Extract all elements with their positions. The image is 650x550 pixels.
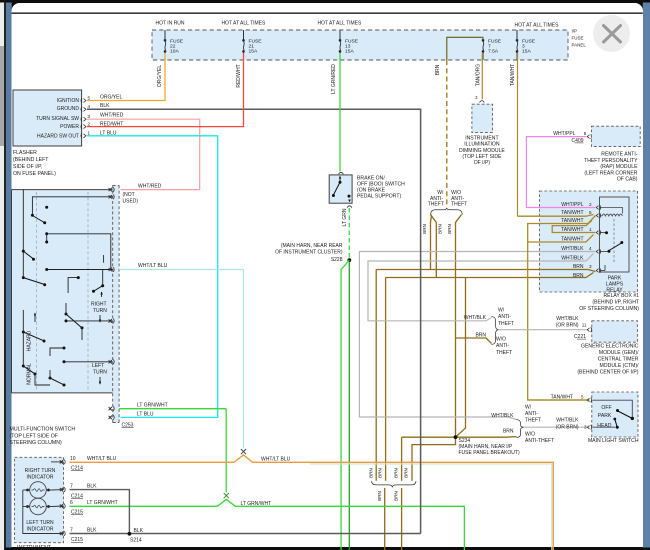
svg-text:BRN: BRN xyxy=(377,491,382,501)
svg-text:I/P: I/P xyxy=(572,29,578,34)
svg-text:WHT/BLK: WHT/BLK xyxy=(556,316,579,322)
svg-text:4: 4 xyxy=(88,104,91,109)
svg-text:SIDE OF I/P,: SIDE OF I/P, xyxy=(13,164,42,170)
svg-text:TURN SIGNAL SW: TURN SIGNAL SW xyxy=(36,116,79,122)
svg-text:WHT/BLK: WHT/BLK xyxy=(464,315,487,321)
svg-text:WHT/LT BLU: WHT/LT BLU xyxy=(261,456,291,462)
svg-text:BRN: BRN xyxy=(435,64,441,75)
svg-text:BRN: BRN xyxy=(404,468,409,478)
svg-text:WHT/RED: WHT/RED xyxy=(100,113,124,119)
svg-text:FUSE: FUSE xyxy=(522,38,536,44)
svg-text:BRN: BRN xyxy=(475,333,486,339)
svg-text:THEFT: THEFT xyxy=(496,350,512,356)
svg-text:BRN: BRN xyxy=(447,224,452,234)
svg-text:4: 4 xyxy=(589,246,592,251)
svg-text:15A: 15A xyxy=(249,49,258,55)
svg-text:HEAD: HEAD xyxy=(597,423,611,429)
svg-text:1: 1 xyxy=(88,131,91,136)
svg-text:11: 11 xyxy=(582,323,587,328)
svg-text:IGNITION: IGNITION xyxy=(57,98,80,104)
svg-text:22: 22 xyxy=(170,44,176,50)
svg-text:TAN/WHT: TAN/WHT xyxy=(561,210,583,216)
svg-text:BLK: BLK xyxy=(87,528,97,534)
svg-text:ORG/YEL: ORG/YEL xyxy=(100,95,122,101)
svg-text:WHT/BLK: WHT/BLK xyxy=(556,418,579,424)
svg-text:7: 7 xyxy=(488,44,491,50)
svg-text:(LEFT REAR CORNER: (LEFT REAR CORNER xyxy=(584,170,637,176)
svg-text:7: 7 xyxy=(70,528,73,534)
svg-text:GENERIC ELECTRONIC: GENERIC ELECTRONIC xyxy=(581,344,639,350)
svg-text:5: 5 xyxy=(88,95,91,100)
svg-text:INDICATOR: INDICATOR xyxy=(26,526,53,532)
svg-text:LEFT TURN: LEFT TURN xyxy=(26,520,54,526)
svg-text:TAN/WHT: TAN/WHT xyxy=(561,237,583,243)
svg-text:MODULE (CTM)/: MODULE (CTM)/ xyxy=(599,363,639,369)
svg-text:HOT AT ALL TIMES: HOT AT ALL TIMES xyxy=(221,21,266,27)
svg-text:HOT AT ALL TIMES: HOT AT ALL TIMES xyxy=(317,21,362,27)
svg-text:STEERING COLUMN): STEERING COLUMN) xyxy=(10,440,62,446)
svg-text:W/O: W/O xyxy=(525,432,535,438)
svg-text:POWER: POWER xyxy=(60,124,79,130)
svg-text:TAN/WHT: TAN/WHT xyxy=(561,227,583,233)
svg-text:MAIN LIGHT SWITCH: MAIN LIGHT SWITCH xyxy=(588,438,639,444)
svg-text:(OR BRN): (OR BRN) xyxy=(556,323,579,329)
svg-text:THEFT: THEFT xyxy=(451,202,467,208)
svg-text:15A: 15A xyxy=(522,49,531,55)
svg-text:BRN: BRN xyxy=(368,468,373,478)
svg-text:PEDAL SUPPORT): PEDAL SUPPORT) xyxy=(357,194,401,200)
svg-text:8: 8 xyxy=(584,131,587,136)
svg-text:LEFT: LEFT xyxy=(92,363,104,369)
svg-text:LT GRN: LT GRN xyxy=(342,208,348,226)
svg-text:BRN: BRN xyxy=(573,264,584,270)
svg-text:5: 5 xyxy=(589,210,592,215)
svg-text:BLK: BLK xyxy=(134,528,144,534)
svg-text:TAN/ORG: TAN/ORG xyxy=(475,64,481,87)
svg-text:WHT/BLK: WHT/BLK xyxy=(561,256,584,262)
svg-text:MODULE (GEM)/: MODULE (GEM)/ xyxy=(599,350,639,356)
svg-text:THEFT PERSONALITY: THEFT PERSONALITY xyxy=(584,158,638,164)
svg-text:THEFT: THEFT xyxy=(498,321,514,327)
svg-text:TURN: TURN xyxy=(93,308,107,314)
svg-text:BRN: BRN xyxy=(573,273,584,279)
svg-text:WHT/LT BLU: WHT/LT BLU xyxy=(87,456,117,462)
svg-text:LT GRN/WHT: LT GRN/WHT xyxy=(137,402,168,408)
svg-text:10: 10 xyxy=(70,456,76,462)
svg-text:INDICATOR: INDICATOR xyxy=(26,475,53,481)
svg-text:(MAIN HARN, NEAR REAR: (MAIN HARN, NEAR REAR xyxy=(281,243,343,249)
svg-text:3: 3 xyxy=(88,114,91,119)
svg-text:THEFT: THEFT xyxy=(525,417,541,423)
svg-text:CENTRAL TIMER: CENTRAL TIMER xyxy=(598,357,639,363)
svg-text:BRN: BRN xyxy=(377,468,382,478)
svg-text:BRN: BRN xyxy=(503,429,514,435)
svg-text:WHT/BLK: WHT/BLK xyxy=(561,246,584,252)
svg-text:BRN: BRN xyxy=(393,468,398,478)
svg-text:LT GRN/WHT: LT GRN/WHT xyxy=(87,500,118,506)
svg-text:RED/WHT: RED/WHT xyxy=(236,64,242,87)
svg-text:15A: 15A xyxy=(345,49,354,55)
svg-text:ON FUSE PANEL): ON FUSE PANEL) xyxy=(13,171,56,177)
svg-text:RIGHT: RIGHT xyxy=(91,302,107,308)
svg-text:1: 1 xyxy=(589,227,592,232)
svg-text:HOT IN RUN: HOT IN RUN xyxy=(155,21,184,27)
svg-text:BLK: BLK xyxy=(100,103,110,109)
svg-text:5: 5 xyxy=(581,394,584,399)
svg-text:S214: S214 xyxy=(130,538,142,544)
svg-text:10A: 10A xyxy=(170,49,179,55)
svg-text:HAZARD SW OUT: HAZARD SW OUT xyxy=(37,133,79,139)
svg-text:ANTI-: ANTI- xyxy=(525,411,538,417)
svg-text:TAN/WHT: TAN/WHT xyxy=(510,64,516,86)
svg-text:DIMMING MODULE: DIMMING MODULE xyxy=(459,148,505,154)
svg-text:FUSE PANEL BREAKOUT): FUSE PANEL BREAKOUT) xyxy=(459,450,520,456)
svg-text:FUSE: FUSE xyxy=(488,38,502,44)
svg-text:INSTRUMENT: INSTRUMENT xyxy=(17,545,52,550)
svg-text:W/: W/ xyxy=(525,405,532,411)
svg-text:OF STEERING COLUMN): OF STEERING COLUMN) xyxy=(579,306,639,312)
svg-text:LT GRN/WHT: LT GRN/WHT xyxy=(241,501,272,507)
svg-text:WHT/PPL: WHT/PPL xyxy=(561,202,583,208)
svg-text:ANTI-THEFT: ANTI-THEFT xyxy=(525,438,554,444)
svg-text:OFF: OFF xyxy=(601,405,611,411)
svg-text:FUSE: FUSE xyxy=(345,38,359,44)
svg-text:2: 2 xyxy=(88,121,91,126)
svg-text:W/: W/ xyxy=(498,308,505,314)
svg-text:HOT AT ALL TIMES: HOT AT ALL TIMES xyxy=(515,23,560,29)
svg-text:S228: S228 xyxy=(331,257,343,263)
svg-text:3: 3 xyxy=(522,44,525,50)
svg-text:REMOTE ANTI-: REMOTE ANTI- xyxy=(601,152,638,158)
svg-text:ILLUMINATION: ILLUMINATION xyxy=(464,142,500,148)
svg-text:2: 2 xyxy=(589,202,592,207)
svg-text:BRN: BRN xyxy=(394,491,399,501)
svg-text:7.5A: 7.5A xyxy=(488,49,499,55)
svg-text:ANTI-: ANTI- xyxy=(496,343,509,349)
svg-text:(MAIN HARN, NEAR I/P: (MAIN HARN, NEAR I/P xyxy=(459,444,514,450)
svg-text:TAN/WHT: TAN/WHT xyxy=(561,218,583,224)
svg-text:21: 21 xyxy=(249,44,255,50)
svg-text:WHT/BLK: WHT/BLK xyxy=(491,413,514,419)
svg-text:PANEL: PANEL xyxy=(572,43,587,48)
svg-text:W/O: W/O xyxy=(496,337,506,343)
svg-text:ORG/YEL: ORG/YEL xyxy=(157,65,163,87)
svg-text:(TOP LEFT SIDE: (TOP LEFT SIDE xyxy=(462,154,502,160)
svg-text:FUSE: FUSE xyxy=(249,38,263,44)
svg-text:WHT/RED: WHT/RED xyxy=(138,183,162,189)
svg-text:TURN: TURN xyxy=(93,369,107,375)
svg-text:TAN/WHT: TAN/WHT xyxy=(551,394,573,400)
svg-text:3: 3 xyxy=(584,424,587,429)
svg-text:USED): USED) xyxy=(123,198,139,204)
svg-text:6: 6 xyxy=(70,500,73,506)
svg-text:WHT/LT BLU: WHT/LT BLU xyxy=(138,263,168,269)
svg-text:3: 3 xyxy=(589,264,592,269)
svg-text:FLASHER: FLASHER xyxy=(13,150,37,156)
svg-text:LT BLU: LT BLU xyxy=(137,412,154,418)
svg-text:RIGHT TURN: RIGHT TURN xyxy=(25,468,56,474)
svg-text:(BEHIND LEFT: (BEHIND LEFT xyxy=(13,157,49,163)
svg-text:WHT/PPL: WHT/PPL xyxy=(553,131,575,137)
svg-text:(NOT: (NOT xyxy=(123,192,135,198)
svg-text:ANTI-: ANTI- xyxy=(498,314,511,320)
svg-text:7: 7 xyxy=(70,484,73,490)
svg-text:FUSE: FUSE xyxy=(170,38,184,44)
svg-text:(RAP) MODULE: (RAP) MODULE xyxy=(600,164,638,170)
svg-text:RELAY BOX #1: RELAY BOX #1 xyxy=(604,293,640,299)
svg-text:INSTRUMENT: INSTRUMENT xyxy=(465,136,498,142)
svg-text:OF CAB): OF CAB) xyxy=(617,177,638,183)
svg-text:(TOP LEFT SIDE OF: (TOP LEFT SIDE OF xyxy=(10,433,58,439)
svg-text:THEFT: THEFT xyxy=(428,202,444,208)
svg-text:(BEHIND CENTER OF I/P): (BEHIND CENTER OF I/P) xyxy=(577,370,638,376)
svg-text:FUSE: FUSE xyxy=(572,36,584,41)
svg-text:BRN: BRN xyxy=(422,224,427,234)
svg-text:BRN: BRN xyxy=(438,224,443,234)
svg-text:13: 13 xyxy=(345,44,351,50)
svg-text:OF INSTRUMENT CLUSTER): OF INSTRUMENT CLUSTER) xyxy=(275,250,343,256)
svg-text:S234: S234 xyxy=(459,438,471,444)
svg-text:(OR BRN): (OR BRN) xyxy=(556,424,579,430)
svg-text:BLK: BLK xyxy=(87,484,97,490)
svg-text:NORMAL: NORMAL xyxy=(27,363,33,385)
svg-text:OF I/P): OF I/P) xyxy=(474,160,491,166)
svg-text:GROUND: GROUND xyxy=(57,106,80,112)
svg-text:MULTI-FUNCTION SWITCH: MULTI-FUNCTION SWITCH xyxy=(10,427,76,433)
svg-text:LT GRN/RED: LT GRN/RED xyxy=(331,64,337,94)
svg-text:(BEHIND I/P, RIGHT: (BEHIND I/P, RIGHT xyxy=(592,299,639,305)
svg-text:PARK: PARK xyxy=(598,413,612,419)
